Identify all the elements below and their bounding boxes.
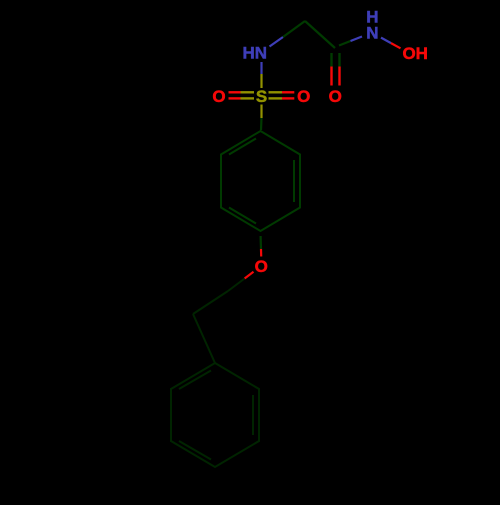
bond C-N2 (carbon half) <box>339 41 351 46</box>
bond N2-O3 (red half) <box>391 43 401 48</box>
bond O2-C1 (red half) <box>245 272 254 279</box>
bond N1-CH2 (blue half) <box>270 37 284 47</box>
svg-text:HN: HN <box>243 44 268 63</box>
bond C1-C2 <box>193 291 228 314</box>
bond ring1-O2 (red half) <box>260 249 262 257</box>
double bond C=O carbonyl (carbon halves) <box>330 53 332 67</box>
benzene ring 1 (para-substituted) <box>221 131 300 231</box>
svg-text:N: N <box>366 24 378 43</box>
bond CH2-C(=O) <box>305 21 335 48</box>
ring1 inner double bond TR-BR <box>293 160 295 202</box>
svg-text:O: O <box>329 87 342 106</box>
svg-text:OH: OH <box>402 44 428 63</box>
double bond S=O right (sulfur halves) <box>269 91 283 93</box>
bond C2-ring2 <box>193 314 215 363</box>
double bond S=O left (sulfur halves) <box>241 91 255 93</box>
bond N1-S (vertical, blue half) <box>260 62 262 74</box>
ring2 inner double bond B-BL <box>179 441 211 460</box>
ring2 inner double bond TL-T <box>179 371 211 390</box>
bond N1-S (vertical, sulfur half) <box>260 74 262 88</box>
double bond S=O left (oxygen halves) <box>229 91 241 93</box>
bond C-N2 (blue half) <box>351 37 363 42</box>
double bond C=O carbonyl (oxygen halves) <box>330 67 332 86</box>
bond S-ring C (sulfur half) <box>260 105 262 119</box>
svg-text:S: S <box>256 87 267 106</box>
bond N1-CH2 (carbon half) <box>283 21 305 37</box>
double bond S=O right (oxygen halves) <box>282 91 294 93</box>
svg-text:O: O <box>255 257 268 276</box>
ring1 inner double bond B-BL <box>229 208 256 224</box>
svg-text:H: H <box>366 7 378 26</box>
bond ring1-O2 (carbon half) <box>260 236 263 249</box>
svg-text:O: O <box>297 87 310 106</box>
bond O2-C1 (carbon half) <box>228 279 245 292</box>
ring2 inner double bond TR-BR <box>252 395 254 435</box>
svg-text:O: O <box>212 87 225 106</box>
benzene ring 2 (phenyl) <box>171 363 259 467</box>
bond N2-O3 (blue half) <box>381 38 391 44</box>
bond S-ring C (carbon half) <box>260 118 263 130</box>
ring1 inner double bond TL-T <box>229 139 256 155</box>
